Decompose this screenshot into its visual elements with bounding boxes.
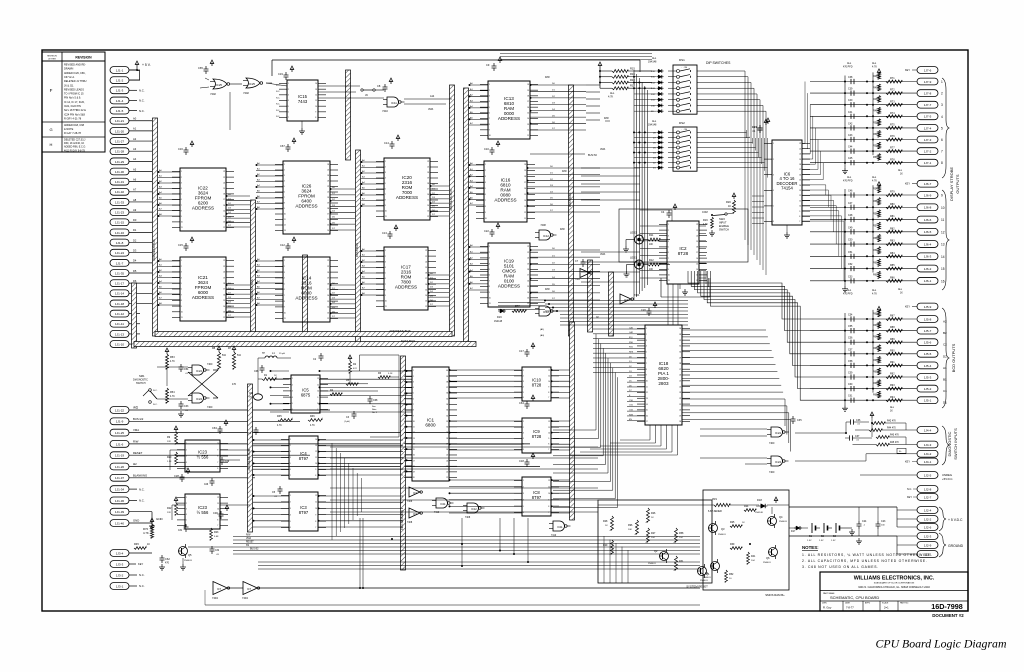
svg-text:R73: R73 — [890, 100, 895, 103]
connector pin 1J2-4 — [897, 507, 938, 514]
svg-text:3: 3 — [290, 451, 291, 453]
wire bundle horizontal runs to diagnostic rows — [498, 300, 688, 326]
brace diagnostic inputs — [942, 426, 949, 465]
svg-text:R89: R89 — [890, 338, 895, 341]
svg-text:6: 6 — [181, 289, 182, 291]
svg-text:2: 2 — [290, 502, 291, 504]
svg-text:2: 2 — [485, 170, 486, 172]
svg-text:1K: 1K — [728, 205, 731, 208]
switch SW2 input enable — [702, 211, 734, 232]
svg-text:13: 13 — [646, 398, 648, 400]
svg-text:16: 16 — [427, 194, 429, 196]
svg-text:ADDRESS: ADDRESS — [494, 198, 516, 203]
svg-text:1J7-8: 1J7-8 — [924, 92, 932, 96]
connector pin 1J1-12 — [110, 310, 140, 317]
svg-text:3: 3 — [288, 95, 289, 97]
inverter buffer 7404 bottom left — [212, 582, 230, 601]
zener ZR1 — [708, 497, 730, 513]
svg-text:6: 6 — [485, 194, 486, 196]
svg-text:2: 2 — [413, 376, 414, 378]
svg-text:3. C68 NOT USED ON ALL GAMES.: 3. C68 NOT USED ON ALL GAMES. — [802, 565, 879, 569]
wires IC4 outputs right — [318, 439, 404, 476]
connector pin 1J1-9 — [110, 417, 300, 425]
wire between buffers — [228, 587, 700, 589]
svg-text:D19: D19 — [497, 316, 502, 319]
transistor Q3 — [708, 521, 726, 536]
svg-text:C30: C30 — [213, 511, 218, 515]
svg-text:15: 15 — [799, 180, 801, 182]
inverter IC7 (7404) — [620, 294, 640, 304]
svg-text:8: 8 — [181, 300, 182, 302]
svg-text:4.7K: 4.7K — [170, 361, 175, 363]
resistor R2 — [348, 355, 357, 373]
svg-text:1: 1 — [186, 497, 187, 499]
svg-text:7: 7 — [288, 117, 289, 119]
svg-text:R18: R18 — [630, 78, 635, 82]
svg-text:1J2-8: 1J2-8 — [924, 487, 932, 491]
svg-text:10: 10 — [548, 432, 550, 434]
svg-text:2N4403: 2N4403 — [184, 560, 192, 562]
svg-text:R58: R58 — [873, 237, 878, 240]
capacitor C26 — [204, 478, 215, 486]
display strobe row R71 — [810, 69, 943, 85]
svg-text:16: 16 — [646, 415, 648, 417]
wires IC14 data pins to bus — [330, 283, 356, 318]
svg-text:26: 26 — [327, 164, 329, 166]
svg-text:31: 31 — [679, 346, 681, 348]
data bus horizontal — [134, 339, 476, 347]
gate IC12 (7408) — [535, 224, 557, 240]
svg-text:18: 18 — [425, 273, 427, 275]
svg-text:2: 2 — [523, 487, 524, 489]
svg-text:7402: 7402 — [210, 92, 216, 96]
svg-text:12: 12 — [548, 480, 550, 482]
gate IC24 (7400) right upper — [767, 427, 789, 445]
transistor Q2 — [648, 549, 669, 565]
capacitor C8 — [377, 78, 393, 92]
IC IC3 (8T97) — [281, 492, 326, 531]
svg-text:ADDRESS BUS: ADDRESS BUS — [247, 449, 251, 471]
svg-text:18: 18 — [679, 421, 681, 423]
title block — [820, 572, 968, 611]
svg-text:R90: R90 — [890, 349, 895, 352]
svg-text:1J6-8: 1J6-8 — [924, 206, 932, 210]
gate IC12 near IC1 — [463, 503, 485, 519]
wires bus to IC17 pins — [361, 248, 385, 296]
svg-text:ADDRESS: ADDRESS — [192, 295, 214, 300]
svg-text:40: 40 — [446, 370, 448, 372]
svg-text:6: 6 — [668, 252, 669, 254]
wires IC25 gates to IC15 — [200, 78, 287, 130]
svg-text:12: 12 — [315, 451, 317, 453]
svg-text:15: 15 — [327, 301, 329, 303]
svg-text:8: 8 — [385, 200, 386, 202]
brace display strobe outputs group B — [942, 190, 949, 290]
svg-text:DATA BUS: DATA BUS — [355, 243, 359, 257]
svg-text:8: 8 — [217, 456, 218, 458]
svg-text:3: 3 — [290, 508, 291, 510]
wires IC3 outputs right — [318, 495, 404, 527]
svg-text:7: 7 — [385, 284, 386, 286]
svg-text:R57: R57 — [873, 225, 878, 228]
IC IC20 (2316) — [376, 158, 438, 220]
svg-text:N.C.: N.C. — [139, 89, 145, 93]
svg-text:11: 11 — [548, 487, 550, 489]
resistor R39 — [730, 543, 742, 549]
svg-text:7404: 7404 — [634, 294, 640, 297]
svg-text:N.C.: N.C. — [139, 584, 145, 588]
svg-text:IC12: IC12 — [543, 234, 549, 238]
svg-text:26: 26 — [446, 449, 448, 451]
svg-text:3: 3 — [489, 258, 490, 260]
caption CPU Board Logic Diagram — [876, 637, 1007, 651]
connector pin 1J1-18 — [110, 299, 152, 307]
connector pin 1J1-6 — [110, 440, 530, 448]
svg-text:19: 19 — [327, 203, 329, 205]
connector pin 1J1-31 — [110, 177, 152, 185]
transistor Q5 — [178, 544, 192, 562]
svg-text:28: 28 — [679, 363, 681, 365]
display strobe row R77 — [810, 142, 943, 155]
capacitor C15 — [178, 237, 194, 251]
svg-text:1: 1 — [385, 161, 386, 163]
svg-text:10: 10 — [799, 206, 801, 208]
svg-text:1J5-8: 1J5-8 — [924, 317, 932, 321]
wires bus to IC3 — [253, 495, 290, 527]
resistor R45 — [853, 442, 918, 446]
svg-text:13: 13 — [527, 298, 529, 300]
connector pin 1J1-4 — [110, 97, 145, 104]
svg-text:39: 39 — [446, 376, 448, 378]
svg-text:12K: 12K — [167, 512, 171, 514]
svg-text:R29: R29 — [603, 544, 608, 547]
capacitor C3 — [344, 411, 357, 423]
svg-text:DATA BUS: DATA BUS — [568, 193, 572, 207]
svg-text:17: 17 — [223, 289, 225, 291]
BCD output ground rail — [842, 313, 848, 411]
svg-text:12: 12 — [315, 495, 317, 497]
svg-text:8: 8 — [284, 301, 285, 303]
svg-text:C61: C61 — [249, 393, 254, 395]
svg-text:4.7K: 4.7K — [703, 224, 708, 226]
svg-text:7404: 7404 — [212, 596, 218, 600]
svg-text:13: 13 — [427, 211, 429, 213]
connector pin 1J2-3 — [897, 533, 938, 540]
resistor R53 — [165, 348, 175, 369]
svg-text:R96: R96 — [628, 524, 633, 527]
connector pin 1J1-2 — [110, 77, 140, 84]
wires IC8 to data bus — [551, 479, 571, 513]
svg-text:6: 6 — [290, 469, 291, 471]
svg-text:IC7: IC7 — [413, 513, 418, 516]
key pin 1J7-6 — [905, 67, 938, 74]
svg-text:C39: C39 — [848, 88, 853, 91]
svg-text:11: 11 — [548, 376, 550, 378]
display strobe +5V rail — [872, 72, 874, 163]
svg-text:D5: D5 — [133, 269, 137, 273]
svg-text:ADDRESS BUS: ADDRESS BUS — [152, 239, 156, 261]
wire bundle timing signals to system reset — [330, 447, 598, 512]
svg-text:7: 7 — [290, 475, 291, 477]
svg-text:4: 4 — [385, 267, 386, 269]
svg-text:SWITCH: SWITCH — [136, 382, 146, 385]
resistor R4 — [330, 389, 342, 395]
svg-text:1: 1 — [485, 164, 486, 166]
gate IC25 second (7402) — [243, 78, 263, 95]
svg-text:1: 1 — [181, 171, 182, 173]
svg-text:10: 10 — [284, 312, 286, 314]
svg-text:N.C.: N.C. — [153, 404, 158, 406]
svg-text:IC24: IC24 — [196, 397, 202, 401]
wire loop under IC2 with ground — [661, 278, 710, 297]
connector pin 1J2-7 — [907, 494, 938, 501]
svg-text:5: 5 — [385, 183, 386, 185]
svg-text:SM1: SM1 — [139, 374, 145, 378]
wires DIP diode rows to verticals — [634, 71, 656, 168]
svg-text:8: 8 — [217, 520, 218, 522]
svg-text:C67: C67 — [280, 144, 285, 148]
svg-text:19: 19 — [425, 267, 427, 269]
svg-text:DRAWN: DRAWN — [64, 68, 74, 71]
svg-text:17: 17 — [413, 460, 415, 462]
svg-text:N.C.: N.C. — [139, 99, 145, 103]
svg-text:Q4: Q4 — [779, 515, 783, 519]
svg-text:4: 4 — [485, 182, 486, 184]
svg-text:11: 11 — [527, 135, 529, 137]
display strobe row R84 — [810, 247, 945, 260]
svg-text:R/W: R/W — [560, 228, 565, 231]
wires into IC24 gate inputs — [700, 429, 767, 464]
svg-text:12: 12 — [217, 497, 219, 499]
svg-text:(A0): (A0) — [540, 334, 544, 337]
svg-text:12K: 12K — [167, 441, 171, 443]
svg-text:11: 11 — [181, 227, 183, 229]
svg-text:2: 2 — [290, 445, 291, 447]
label DIAGNOSTIC SWITCH INPUTS — [947, 428, 958, 460]
svg-text:C21: C21 — [752, 125, 757, 129]
svg-text:19: 19 — [679, 415, 681, 417]
zener ZR1 feed wires — [598, 505, 789, 536]
svg-text:12: 12 — [941, 230, 945, 234]
svg-text:10: 10 — [668, 275, 670, 277]
svg-text:R45: R45 — [134, 542, 139, 546]
label DS2 — [679, 121, 685, 125]
svg-text:10: 10 — [489, 298, 491, 300]
DIP switch DS1 — [651, 65, 697, 114]
revision table — [42, 52, 105, 152]
LED2 — [630, 231, 648, 245]
svg-text:C42: C42 — [848, 122, 853, 125]
svg-text:R60: R60 — [873, 261, 878, 264]
label 470 — [232, 383, 237, 386]
svg-text:1: 1 — [523, 480, 524, 482]
svg-text:1: 1 — [292, 378, 293, 380]
svg-text:2: 2 — [646, 334, 647, 336]
svg-text:20: 20 — [799, 154, 801, 156]
svg-text:10: 10 — [385, 211, 387, 213]
capacitor C64 — [519, 395, 535, 409]
IC IC21 (3624) — [172, 257, 234, 321]
svg-text:1J1-25: 1J1-25 — [115, 431, 125, 435]
svg-text:8: 8 — [489, 286, 490, 288]
signal labels center — [540, 148, 606, 337]
svg-text:R67: R67 — [873, 370, 878, 373]
connector pin 1J2-6 — [897, 524, 938, 531]
connector pin 1J1-14 — [110, 289, 152, 297]
svg-text:R₂: R₂ — [899, 451, 902, 453]
resistor R15 — [600, 67, 652, 73]
svg-text:D3: D3 — [133, 249, 137, 253]
capacitor C6 — [248, 427, 259, 439]
resistor R27 — [647, 528, 657, 542]
svg-text:2: 2 — [284, 170, 285, 172]
svg-text:1J5-7: 1J5-7 — [924, 329, 932, 333]
resistor R25 — [730, 521, 745, 527]
svg-text:18: 18 — [524, 176, 526, 178]
wire verticals from data bus to bottom bundle — [359, 518, 751, 589]
svg-text:7: 7 — [646, 363, 647, 365]
connector pin 1J1-32 — [110, 188, 152, 196]
svg-text:16: 16 — [696, 258, 698, 260]
svg-text:IC24 PIN No's 5&9: IC24 PIN No's 5&9 — [64, 113, 86, 116]
display strobe row R76 — [810, 130, 943, 143]
wires bus to IC1 pins — [406, 370, 413, 477]
svg-text:14: 14 — [696, 269, 698, 271]
svg-text:17: 17 — [425, 278, 427, 280]
svg-text:C65: C65 — [198, 66, 203, 70]
svg-text:1J2-4: 1J2-4 — [924, 508, 932, 512]
connector pin 1J4-3 — [917, 441, 938, 448]
svg-text:2: 2 — [385, 256, 386, 258]
svg-text:1J1-4: 1J1-4 — [116, 99, 124, 103]
svg-text:15: 15 — [427, 200, 429, 202]
svg-text:ADDRESS: ADDRESS — [192, 206, 214, 211]
label ALL 470 PFD (strobe B) — [843, 176, 853, 183]
svg-text:9: 9 — [548, 438, 549, 440]
connector pin 1J1-24 — [110, 249, 152, 257]
gate IC24 (7400) upper-left — [188, 363, 213, 375]
svg-text:1J5-2: 1J5-2 — [924, 387, 932, 391]
display strobe row R75 — [810, 119, 943, 132]
svg-text:10: 10 — [315, 106, 317, 108]
wires bus to IC26 pins — [256, 162, 284, 210]
resistor R8 — [212, 346, 227, 369]
resistor R44 — [855, 428, 917, 432]
wires IC26 data pins to bus — [330, 187, 356, 230]
svg-text:1.5V: 1.5V — [819, 540, 824, 542]
svg-text:14: 14 — [223, 306, 225, 308]
gate IC12 lower (7408) — [535, 306, 557, 316]
svg-text:1J1-36: 1J1-36 — [115, 499, 125, 503]
svg-text:½ 556: ½ 556 — [197, 454, 209, 459]
svg-text:12: 12 — [315, 95, 317, 97]
svg-text:R53: R53 — [170, 356, 175, 359]
svg-text:18: 18 — [223, 194, 225, 196]
svg-text:1J2-3: 1J2-3 — [924, 534, 932, 538]
wire bundle DS verticals down to PIA bundle — [745, 130, 768, 275]
wire verticals system reset feeds — [604, 536, 628, 583]
svg-text:15: 15 — [941, 267, 945, 271]
border frame — [42, 50, 968, 611]
svg-text:2: 2 — [523, 427, 524, 429]
resistor R16 — [600, 72, 652, 78]
svg-text:15: 15 — [223, 210, 225, 212]
resistor R45 — [134, 542, 150, 549]
svg-text:7: 7 — [284, 295, 285, 297]
svg-text:9: 9 — [799, 211, 800, 213]
resistor R21 — [167, 452, 177, 464]
capacitor C7 — [575, 259, 586, 267]
svg-text:9: 9 — [489, 130, 490, 132]
display strobe row R73 — [810, 96, 943, 109]
svg-text:1N4148: 1N4148 — [494, 321, 503, 323]
svg-text:7400: 7400 — [769, 442, 775, 445]
svg-text:25: 25 — [679, 381, 681, 383]
svg-text:1J6-4: 1J6-4 — [924, 242, 932, 246]
svg-text:5: 5 — [292, 403, 293, 405]
svg-text:30: 30 — [679, 351, 681, 353]
connector pin 1J1-37 — [110, 473, 255, 481]
svg-text:IC7: IC7 — [247, 587, 252, 591]
svg-text:7404: 7404 — [242, 596, 248, 600]
svg-text:4: 4 — [288, 100, 289, 102]
svg-text:11: 11 — [315, 457, 317, 459]
svg-text:1: 1 — [413, 370, 414, 372]
svg-text:4.7K: 4.7K — [277, 425, 282, 427]
svg-text:12: 12 — [524, 212, 526, 214]
svg-text:A4: A4 — [133, 157, 137, 161]
svg-text:22: 22 — [696, 224, 698, 226]
svg-text:22: 22 — [425, 250, 427, 252]
label ALL 4.7K (strobe B) — [872, 176, 877, 183]
svg-text:4: 4 — [292, 397, 293, 399]
svg-text:R54: R54 — [170, 391, 175, 394]
svg-text:C46: C46 — [848, 190, 853, 193]
svg-text:17: 17 — [524, 182, 526, 184]
svg-text:34: 34 — [446, 404, 448, 406]
svg-text:8: 8 — [941, 161, 943, 165]
svg-text:R52: R52 — [873, 145, 878, 148]
capacitor C18 — [519, 453, 535, 467]
svg-text:14: 14 — [941, 255, 945, 259]
ground at 1J1-40 — [149, 512, 164, 529]
label BCD OUTPUTS — [951, 343, 956, 372]
svg-text:1J3-4: 1J3-4 — [116, 551, 124, 555]
svg-text:R91: R91 — [890, 361, 895, 364]
IC6 output fan to strobe rows — [802, 82, 844, 281]
svg-text:C31: C31 — [178, 530, 183, 532]
svg-text:C45: C45 — [848, 157, 853, 160]
capacitor C63 — [212, 420, 228, 434]
gate IC11 near IC1 — [432, 498, 454, 514]
svg-text:2: 2 — [186, 503, 187, 505]
svg-text:15: 15 — [524, 194, 526, 196]
svg-text:N.C.: N.C. — [276, 97, 280, 99]
svg-text:R31: R31 — [679, 560, 684, 563]
svg-text:19: 19 — [427, 178, 429, 180]
svg-text:2=1: 2=1 — [884, 606, 889, 610]
svg-text:21: 21 — [223, 266, 225, 268]
label ALL 1N4148 (DS2 diodes) — [648, 120, 657, 127]
connector pin 1J2-5 — [860, 472, 953, 481]
svg-text:4: 4 — [186, 514, 187, 516]
svg-text:21: 21 — [327, 192, 329, 194]
svg-text:6800: 6800 — [425, 423, 436, 428]
svg-text:7408: 7408 — [540, 224, 546, 227]
resistor R70 — [143, 518, 154, 538]
label DS1 — [679, 58, 685, 62]
wires bus to IC19 pins — [469, 244, 489, 290]
